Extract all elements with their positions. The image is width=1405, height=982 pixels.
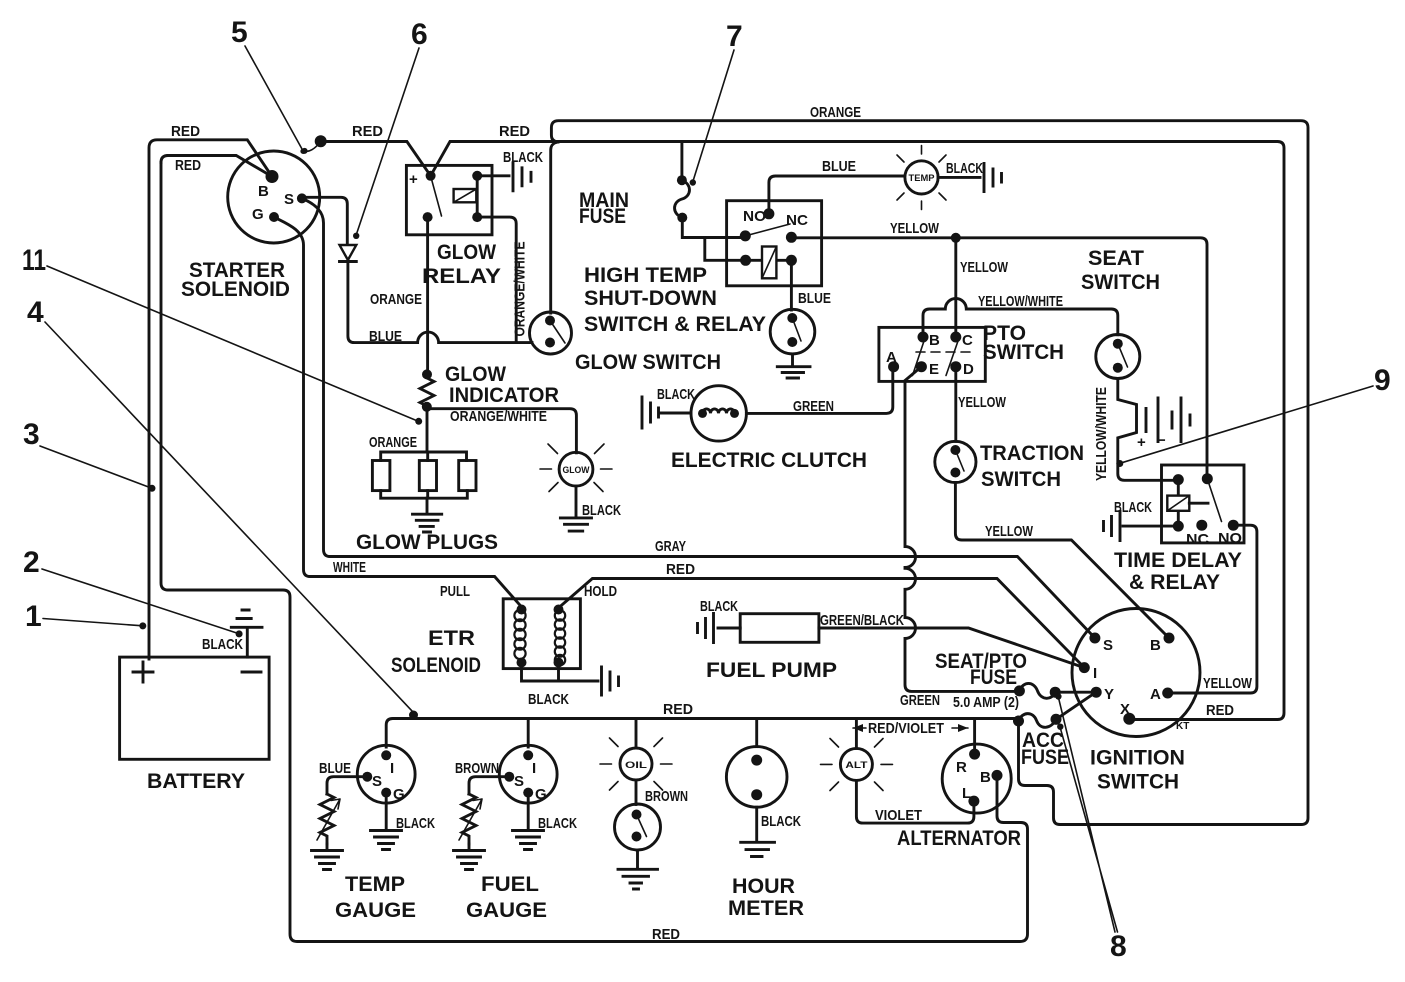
- svg-text:SWITCH: SWITCH: [1081, 271, 1160, 294]
- ignition terminal S: [1089, 633, 1100, 644]
- seat switch circle: [1096, 335, 1140, 379]
- svg-text:RED: RED: [663, 701, 693, 718]
- svg-text:G: G: [252, 206, 264, 223]
- svg-text:YELLOW: YELLOW: [890, 220, 940, 237]
- svg-text:HOLD: HOLD: [584, 583, 617, 600]
- svg-text:GAUGE: GAUGE: [466, 899, 547, 922]
- svg-text:BLACK: BLACK: [657, 386, 695, 403]
- ground (glow lamp): [560, 518, 591, 531]
- svg-text:5: 5: [231, 16, 248, 49]
- ground (high temp switch): [777, 367, 810, 378]
- svg-text:1: 1: [25, 600, 42, 633]
- glow relay coil with frame: [476, 176, 479, 217]
- svg-text:FUSE: FUSE: [1021, 746, 1069, 769]
- starter solenoid terminal B: [266, 170, 279, 183]
- svg-text:S: S: [372, 773, 382, 790]
- alternator circle: [942, 744, 1011, 813]
- high temp relay box: [727, 201, 822, 286]
- svg-text:SHUT-DOWN: SHUT-DOWN: [584, 287, 717, 310]
- wire YELLOW: time delay NO down to ignition A: [1172, 525, 1257, 693]
- PTO switch box: [879, 327, 985, 381]
- svg-text:G: G: [535, 786, 547, 803]
- svg-text:L: L: [962, 785, 971, 802]
- wire glow plugs to ground: [426, 498, 429, 514]
- PTO terminal E: [916, 361, 927, 372]
- svg-text:SWITCH: SWITCH: [983, 341, 1064, 364]
- svg-text:YELLOW/WHITE: YELLOW/WHITE: [1093, 387, 1110, 481]
- svg-text:BLACK: BLACK: [202, 636, 243, 653]
- svg-text:BLUE: BLUE: [798, 290, 831, 307]
- traction switch circle: [935, 441, 976, 482]
- svg-text:GREEN: GREEN: [793, 398, 834, 415]
- wire BLUE: NO up and right to temp lamp: [769, 176, 905, 214]
- svg-text:SOLENOID: SOLENOID: [391, 654, 481, 677]
- svg-text:ETR: ETR: [428, 627, 475, 650]
- wire YELLOW: traction switch to ignition B: [955, 483, 1169, 639]
- svg-text:IGNITION: IGNITION: [1090, 747, 1185, 770]
- svg-text:RED/VIOLET: RED/VIOLET: [868, 720, 944, 737]
- svg-text:& RELAY: & RELAY: [1129, 571, 1220, 594]
- PTO terminal D: [950, 361, 961, 372]
- ground (fuel sender): [454, 844, 485, 870]
- svg-text:BROWN: BROWN: [645, 788, 688, 805]
- ignition terminal Y: [1091, 687, 1102, 698]
- svg-text:RED: RED: [499, 123, 530, 140]
- wire temp lamp to ground: [938, 176, 980, 179]
- ground (hour meter): [741, 842, 775, 856]
- svg-text:I: I: [1093, 665, 1097, 682]
- main fuse: [677, 175, 687, 185]
- diode: [340, 245, 357, 260]
- svg-text:I: I: [390, 760, 394, 777]
- battery +: [133, 662, 153, 682]
- svg-text:BLACK: BLACK: [528, 691, 569, 708]
- svg-text:+: +: [1137, 434, 1146, 451]
- battery box: [120, 657, 270, 759]
- wire hour meter feed from bus: [755, 719, 758, 747]
- wire ACC fuse to ignition Y (diagonal): [1056, 694, 1094, 720]
- svg-text:ALTERNATOR: ALTERNATOR: [897, 827, 1021, 850]
- svg-text:BLACK: BLACK: [503, 149, 543, 166]
- svg-text:GLOW: GLOW: [563, 465, 590, 475]
- wire BLUE: temp gauge S to sender: [327, 777, 367, 794]
- svg-text:INDICATOR: INDICATOR: [449, 384, 559, 407]
- svg-text:A: A: [1150, 686, 1161, 703]
- ground (glow relay): [513, 163, 531, 191]
- time delay seat-wire terminal and blade: [1202, 473, 1213, 484]
- svg-text:NO: NO: [743, 208, 766, 225]
- starter solenoid circle: [228, 151, 320, 243]
- wire S to diode: [305, 197, 347, 243]
- svg-text:FUSE: FUSE: [970, 666, 1017, 689]
- svg-text:TEMP: TEMP: [909, 173, 935, 183]
- wire YELLOW: NC to right with junction and corner down to time delay: [791, 238, 1207, 479]
- svg-text:RELAY: RELAY: [422, 265, 501, 288]
- relay coil terminals: [740, 255, 751, 266]
- svg-text:FUEL PUMP: FUEL PUMP: [706, 659, 837, 682]
- ignition terminal X: [1123, 713, 1135, 725]
- wire GREEN/BLACK: fuel pump to ignition I: [819, 628, 1084, 668]
- battery symbol (time delay): [1146, 398, 1190, 442]
- svg-text:BLUE: BLUE: [319, 760, 351, 777]
- battery -: [242, 671, 261, 674]
- wire alt lamp feed from bus: [855, 719, 858, 749]
- svg-text:RED: RED: [652, 926, 680, 943]
- ground (battery): [231, 610, 262, 627]
- wire hour meter to ground BLACK: [755, 807, 758, 841]
- hour meter circle: [726, 747, 787, 808]
- svg-text:7: 7: [726, 20, 743, 53]
- svg-text:TIME DELAY: TIME DELAY: [1114, 549, 1242, 572]
- glow plugs: three plugs ladder: [381, 452, 467, 461]
- wire RED battery positive: left outer vertical and top run to starter solenoid B: [149, 140, 272, 659]
- svg-text:OIL: OIL: [625, 760, 648, 770]
- svg-text:RED: RED: [666, 561, 695, 578]
- svg-text:METER: METER: [728, 897, 804, 920]
- wire GREEN: clutch to PTO A: [746, 367, 892, 414]
- svg-text:WHITE: WHITE: [333, 559, 366, 576]
- svg-text:SEAT: SEAT: [1088, 247, 1144, 270]
- svg-text:S: S: [514, 773, 524, 790]
- svg-text:BLACK: BLACK: [700, 598, 738, 615]
- svg-text:BLACK: BLACK: [761, 813, 801, 830]
- svg-text:SWITCH: SWITCH: [981, 468, 1061, 491]
- wire ORANGE: glow relay lower-left down to glow indicator: [426, 217, 429, 372]
- svg-text:GAUGE: GAUGE: [335, 899, 416, 922]
- svg-text:C: C: [962, 332, 973, 349]
- svg-text:8: 8: [1110, 930, 1127, 963]
- svg-text:SOLENOID: SOLENOID: [181, 278, 290, 301]
- glow relay box: [406, 165, 492, 234]
- relay contact NC: [786, 232, 797, 243]
- wire alternator R feed from bus: [973, 719, 976, 755]
- wire GRAY: solenoid S down and right to ignition S: [302, 198, 1095, 638]
- svg-text:NC: NC: [1186, 531, 1209, 548]
- ETR hold coil: [554, 605, 564, 615]
- PTO terminal B: [918, 332, 929, 343]
- svg-text:ORANGE/WHITE: ORANGE/WHITE: [512, 242, 529, 337]
- wire time delay coil to ground BLACK: [1123, 525, 1178, 528]
- svg-text:GREEN: GREEN: [900, 692, 940, 709]
- wire BLUE diode to glow switch with hop over orange vertical: [348, 262, 532, 343]
- svg-text:YELLOW: YELLOW: [1203, 675, 1253, 692]
- wire fuel gauge feed from bus: [527, 719, 530, 748]
- PTO terminal C: [950, 332, 961, 343]
- svg-text:NO: NO: [1218, 530, 1242, 547]
- wire battery negative to chassis ground: [246, 628, 249, 657]
- oil pressure switch circle: [615, 804, 661, 850]
- relay common and blade: [740, 230, 751, 241]
- wire oil lamp to oil switch BROWN: [635, 780, 638, 805]
- electric clutch coil circle: [691, 386, 746, 441]
- wire fuel gauge G to ground BLACK: [527, 793, 530, 830]
- leader 4 endpoint dot on bus: [409, 711, 418, 720]
- svg-text:Y: Y: [1104, 686, 1114, 703]
- wire oil lamp feed from bus: [635, 719, 638, 749]
- wire VIOLET: alt lamp to alternator L: [856, 780, 974, 823]
- svg-text:−: −: [1157, 432, 1166, 449]
- svg-text:ORANGE: ORANGE: [810, 104, 861, 121]
- svg-text:PULL: PULL: [440, 583, 470, 600]
- fuel pump body: [740, 614, 819, 643]
- svg-text:RED: RED: [175, 157, 201, 174]
- wire glow lamp to ground BLACK: [575, 486, 578, 517]
- svg-text:YELLOW: YELLOW: [958, 394, 1007, 411]
- ground (fuel gauge): [513, 831, 544, 850]
- svg-text:BATTERY: BATTERY: [147, 770, 245, 793]
- svg-text:HIGH TEMP: HIGH TEMP: [584, 264, 707, 287]
- time delay input terminal: [1173, 474, 1184, 485]
- svg-text:+: +: [409, 171, 418, 188]
- starter solenoid terminal G: [269, 212, 279, 222]
- wire oil switch to ground: [636, 850, 639, 869]
- svg-text:BLUE: BLUE: [822, 158, 856, 175]
- svg-text:BLUE: BLUE: [369, 328, 402, 345]
- wire RED: ETR hold coil to ignition I: [559, 579, 1084, 668]
- svg-text:SWITCH & RELAY: SWITCH & RELAY: [584, 313, 766, 336]
- svg-text:GRAY: GRAY: [655, 538, 686, 555]
- svg-text:ORANGE: ORANGE: [370, 291, 422, 308]
- svg-text:ORANGE: ORANGE: [369, 434, 417, 451]
- relay contact NO: [763, 208, 774, 219]
- svg-text:BLACK: BLACK: [582, 502, 621, 519]
- starter solenoid terminal S: [297, 193, 307, 203]
- ground (glow plugs): [413, 514, 442, 532]
- electric clutch: ground BLACK: [642, 397, 659, 428]
- fuel gauge circle: [499, 745, 557, 803]
- ignition terminal B: [1164, 633, 1175, 644]
- svg-text:YELLOW/WHITE: YELLOW/WHITE: [978, 293, 1063, 310]
- svg-text:GLOW: GLOW: [445, 363, 506, 386]
- wire ORANGE/WHITE: glow relay right to blue junction: [477, 217, 516, 343]
- wire ORANGE: indicator down to glow plugs: [426, 407, 429, 452]
- alt lamp with rays: [840, 748, 872, 780]
- svg-text:2: 2: [23, 546, 40, 579]
- svg-text:I: I: [532, 760, 536, 777]
- svg-text:YELLOW: YELLOW: [985, 523, 1034, 540]
- ground (temp sender): [312, 844, 343, 870]
- wire BROWN: fuel gauge S to sender: [469, 777, 509, 794]
- svg-text:6: 6: [411, 18, 428, 51]
- PTO blades and link: [913, 341, 959, 376]
- svg-text:KT: KT: [1176, 721, 1189, 732]
- ground (temp gauge): [371, 831, 402, 850]
- temp lamp with rays: [905, 161, 938, 194]
- wire YELLOW/WHITE: PTO B up over C wire to seat switch: [923, 299, 1118, 338]
- PTO terminal A: [888, 361, 899, 372]
- svg-text:D: D: [963, 361, 974, 378]
- svg-text:GLOW: GLOW: [437, 241, 496, 264]
- svg-text:GREEN/BLACK: GREEN/BLACK: [820, 612, 904, 629]
- svg-text:ELECTRIC CLUTCH: ELECTRIC CLUTCH: [671, 449, 867, 472]
- ETR solenoid box: [503, 599, 580, 669]
- svg-text:VIOLET: VIOLET: [875, 807, 922, 824]
- ground (ETR): [602, 667, 619, 695]
- ignition switch circle: [1072, 609, 1200, 737]
- ETR pull coil: [517, 605, 527, 615]
- wire YELLOW branch down to PTO C: [954, 238, 957, 337]
- fuel pump ground BLACK: [698, 614, 741, 643]
- ground (temp lamp): [984, 164, 1002, 192]
- svg-text:RED: RED: [1206, 702, 1234, 719]
- glow relay lower-left terminal: [423, 212, 433, 222]
- glow lamp with rays: [559, 452, 593, 486]
- relay coil box: [762, 247, 776, 279]
- time delay relay box: [1162, 465, 1245, 543]
- svg-text:B: B: [1150, 637, 1161, 654]
- wire ORANGE/WHITE: indicator to glow lamp: [427, 409, 577, 453]
- svg-text:GLOW PLUGS: GLOW PLUGS: [356, 531, 498, 554]
- glow relay blade: [431, 176, 442, 216]
- wire high temp switch to ground: [791, 354, 794, 366]
- svg-text:BLACK: BLACK: [946, 160, 983, 177]
- wire BLUE: relay coil to high-temp switch: [790, 260, 793, 310]
- svg-text:E: E: [929, 361, 939, 378]
- svg-text:G: G: [393, 786, 405, 803]
- high temp switch circle: [770, 309, 815, 354]
- wire YELLOW/WHITE: seat switch down with jog to time delay: [1118, 379, 1179, 481]
- svg-text:S: S: [1103, 637, 1113, 654]
- svg-text:ALT: ALT: [845, 760, 868, 770]
- svg-text:11: 11: [22, 244, 46, 277]
- oil lamp with rays: [620, 748, 652, 780]
- time delay lower terminals NC NO: [1173, 521, 1184, 532]
- svg-text:TEMP: TEMP: [345, 873, 405, 896]
- wire RED main run from pigtail to right with dip to glow relay + and corner down at glow switch: [321, 142, 1284, 720]
- wire YELLOW: PTO D down to traction switch: [954, 367, 957, 442]
- svg-text:TRACTION: TRACTION: [980, 442, 1084, 465]
- wire ETR coils to common ground: [522, 663, 599, 682]
- wire WHITE: solenoid G down and right to ETR pull coil: [274, 217, 523, 608]
- svg-text:3: 3: [23, 418, 40, 451]
- wire main fuse to relay contacts: [682, 218, 745, 261]
- svg-text:X: X: [1120, 701, 1130, 718]
- svg-text:ORANGE/WHITE: ORANGE/WHITE: [450, 408, 547, 425]
- svg-text:5.0 AMP (2): 5.0 AMP (2): [953, 694, 1019, 711]
- ignition terminal A: [1162, 688, 1173, 699]
- svg-text:B: B: [929, 332, 940, 349]
- svg-text:RED: RED: [171, 123, 200, 140]
- svg-text:FUSE: FUSE: [579, 205, 626, 228]
- leader 8 endpoint dots: [1055, 693, 1061, 699]
- ground (time delay): [1104, 512, 1121, 541]
- svg-text:4: 4: [27, 296, 44, 329]
- svg-text:SWITCH: SWITCH: [1097, 771, 1179, 794]
- svg-text:9: 9: [1374, 364, 1391, 397]
- svg-text:B: B: [980, 769, 991, 786]
- temp gauge circle: [357, 745, 415, 803]
- svg-text:FUEL: FUEL: [481, 873, 539, 896]
- svg-text:BROWN: BROWN: [455, 760, 499, 777]
- svg-text:YELLOW: YELLOW: [960, 259, 1009, 276]
- svg-text:S: S: [284, 191, 294, 208]
- glow indicator resistor: [422, 369, 432, 379]
- time delay coil: [1177, 480, 1180, 526]
- ignition terminal I: [1079, 662, 1090, 673]
- wire RED accessory bus: [386, 719, 1018, 748]
- ground (oil switch): [618, 869, 658, 889]
- wire ORANGE top loop: from red junction to far right, down and around to ACC fuse joint: [551, 121, 1308, 825]
- svg-text:A: A: [886, 349, 897, 366]
- seat/pto fuse: [1014, 685, 1025, 696]
- svg-text:NC: NC: [786, 212, 808, 229]
- wire RED pigtail junction and curl (item 5 terminal): [305, 141, 321, 151]
- svg-text:RED: RED: [352, 123, 383, 140]
- wire GREEN: PTO E down with hops to seat/pto fuse: [905, 367, 1018, 692]
- svg-text:B: B: [258, 183, 269, 200]
- svg-text:GLOW SWITCH: GLOW SWITCH: [575, 351, 721, 374]
- wire RED branch down to glow switch: [551, 142, 557, 313]
- ACC fuse on red bus: [1013, 716, 1024, 727]
- temp sender rheostat: [320, 794, 334, 844]
- wire glow relay to chassis ground (BLACK): [477, 174, 509, 177]
- wire temp gauge G to ground BLACK: [385, 793, 388, 830]
- glow switch circle: [530, 312, 572, 354]
- wire RED inner: charging return to bottom bus and alternator B: [161, 156, 1028, 942]
- svg-text:R: R: [956, 759, 967, 776]
- svg-text:HOUR: HOUR: [732, 875, 795, 898]
- wire main fuse drop from RED run: [680, 142, 683, 179]
- fuel sender rheostat: [462, 794, 476, 844]
- wire seat/pto fuse to ignition Y: [1055, 691, 1093, 694]
